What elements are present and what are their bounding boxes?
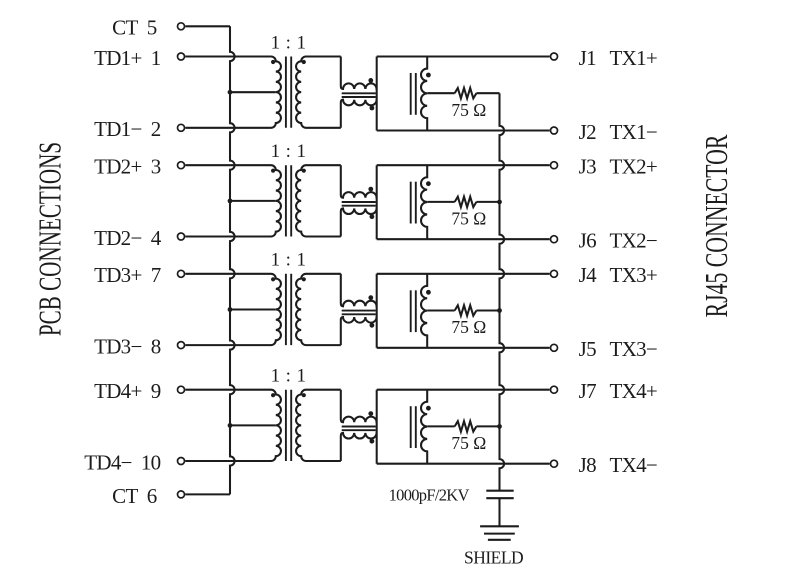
svg-text:75 Ω: 75 Ω	[451, 317, 486, 337]
svg-text:TD3+ 7: TD3+ 7	[94, 263, 161, 287]
svg-text:RJ45 CONNECTOR: RJ45 CONNECTOR	[699, 134, 734, 317]
svg-text:TD2− 4: TD2− 4	[94, 226, 162, 250]
svg-text:1 : 1: 1 : 1	[271, 32, 307, 53]
svg-text:J4 TX3+: J4 TX3+	[579, 263, 657, 287]
svg-text:75 Ω: 75 Ω	[451, 209, 486, 229]
svg-text:1 : 1: 1 : 1	[271, 366, 307, 387]
svg-text:J5 TX3−: J5 TX3−	[579, 337, 657, 361]
svg-text:1000pF/2KV: 1000pF/2KV	[389, 485, 470, 504]
svg-text:J8 TX4−: J8 TX4−	[579, 453, 657, 477]
svg-text:TD1− 2: TD1− 2	[94, 117, 161, 141]
svg-text:1 : 1: 1 : 1	[271, 141, 307, 162]
svg-text:PCB CONNECTIONS: PCB CONNECTIONS	[32, 142, 67, 336]
svg-text:TD4+ 9: TD4+ 9	[94, 379, 161, 403]
svg-text:75 Ω: 75 Ω	[451, 100, 486, 120]
svg-text:J2 TX1−: J2 TX1−	[579, 120, 657, 144]
svg-text:J7 TX4+: J7 TX4+	[579, 379, 657, 403]
svg-text:75 Ω: 75 Ω	[451, 433, 486, 453]
svg-text:TD2+ 3: TD2+ 3	[94, 155, 161, 179]
svg-text:TD3− 8: TD3− 8	[94, 335, 161, 359]
svg-text:J1 TX1+: J1 TX1+	[579, 46, 657, 70]
svg-text:J3 TX2+: J3 TX2+	[579, 155, 657, 179]
svg-text:TD4− 10: TD4− 10	[84, 450, 160, 474]
svg-text:1 : 1: 1 : 1	[271, 250, 307, 271]
svg-text:CT 5: CT 5	[112, 16, 157, 40]
svg-text:J6 TX2−: J6 TX2−	[579, 229, 657, 253]
svg-text:TD1+ 1: TD1+ 1	[94, 46, 161, 70]
svg-text:CT 6: CT 6	[112, 484, 157, 508]
svg-text:SHIELD: SHIELD	[464, 548, 523, 568]
